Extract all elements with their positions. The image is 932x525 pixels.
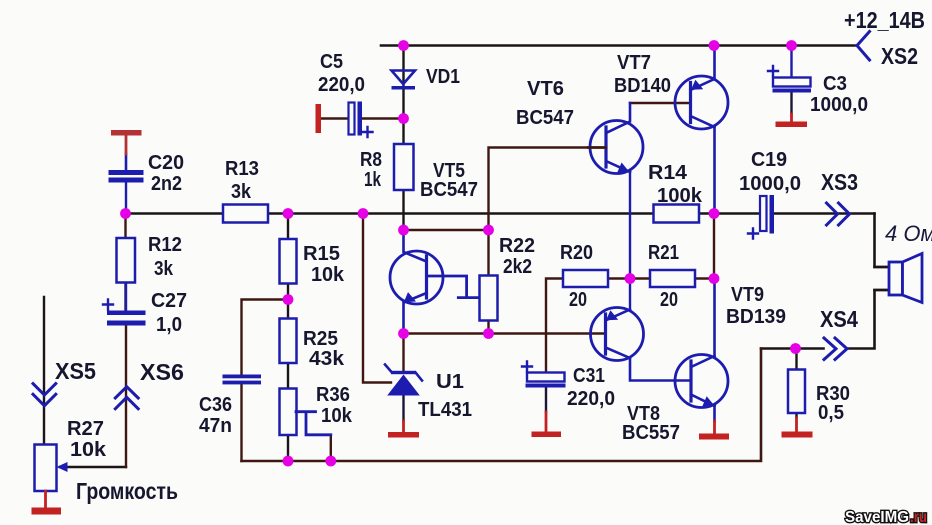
svg-text:220,0: 220,0 [318, 74, 365, 96]
svg-text:VD1: VD1 [426, 66, 460, 88]
svg-text:VT7: VT7 [617, 52, 651, 74]
wire R22 top to VT6 base [489, 148, 607, 231]
resistor R12 [117, 238, 136, 283]
wire VD1 lead [402, 46, 404, 119]
svg-text:10k: 10k [70, 439, 107, 461]
svg-text:43k: 43k [309, 348, 345, 370]
wire U1 cathode lead [402, 334, 404, 371]
wire R20 R21 node [608, 277, 650, 279]
wire output column upper [713, 214, 715, 279]
shunt regulator U1 TL431 [385, 365, 422, 396]
wire R15 top lead [287, 214, 289, 240]
wire speaker bottom to XS4 [761, 290, 889, 349]
node R22 bottom [483, 328, 494, 339]
capacitor C27 [103, 300, 146, 326]
svg-text:VT6: VT6 [527, 78, 564, 100]
node C20/R13 [120, 208, 131, 219]
node VT5 collector [398, 225, 409, 236]
svg-text:SaveIMG: SaveIMG [845, 509, 909, 525]
node VD1 top [398, 40, 409, 51]
svg-text:R12: R12 [148, 234, 182, 256]
transistor VT9 [675, 355, 728, 408]
svg-text:220,0: 220,0 [567, 388, 615, 410]
svg-text:2n2: 2n2 [151, 173, 182, 195]
diode VD1 [392, 71, 416, 90]
wire C27 to XS6 to wiper line [125, 324, 127, 467]
connector XS4 [824, 338, 847, 360]
capacitor C5 [349, 102, 373, 138]
svg-text:BD139: BD139 [726, 306, 786, 328]
capacitor C31 [522, 362, 566, 388]
capacitor C19 [748, 195, 774, 239]
node ref line [358, 208, 369, 219]
svg-text:C36: C36 [199, 394, 232, 416]
svg-text:R25: R25 [303, 328, 338, 350]
capacitor C36 [223, 375, 262, 385]
node R21 output [709, 273, 720, 284]
wire R30 top lead [795, 349, 797, 370]
transistor VT6 [588, 103, 643, 174]
svg-text:BD140: BD140 [614, 75, 671, 97]
red terminal left of C5 [316, 104, 322, 133]
node XS4 R30 [790, 343, 801, 354]
svg-text:BC547: BC547 [516, 107, 574, 129]
wire R8 leads [402, 119, 404, 231]
svg-text:10k: 10k [321, 405, 353, 427]
svg-text:47n: 47n [199, 415, 232, 437]
svg-text:C19: C19 [751, 149, 787, 171]
node dots [120, 40, 801, 466]
svg-text:XS6: XS6 [140, 359, 184, 385]
wire R21 right to output column [695, 277, 714, 279]
svg-text:R27: R27 [67, 418, 104, 440]
transistor VT8 [591, 308, 644, 361]
wire node A to TL431 ref [363, 214, 391, 383]
svg-text:R8: R8 [360, 149, 382, 171]
svg-text:1k: 1k [364, 169, 382, 191]
node C3 rail [786, 40, 797, 51]
transistor VT5 [390, 230, 443, 334]
transistor VT7 [675, 76, 728, 129]
svg-text:1000,0: 1000,0 [810, 94, 868, 116]
wire VT8 collector to VT9 base [630, 358, 691, 381]
connector XS2 [857, 32, 870, 61]
node R36 wiper bottom [325, 456, 336, 467]
resistor R30 [788, 370, 805, 414]
svg-text:20: 20 [569, 289, 587, 311]
wire XS3 to speaker top [875, 214, 890, 268]
wire R36 bottom lead [287, 435, 289, 461]
wire top +12V rail [381, 44, 857, 47]
wire R20 left to C31 [546, 279, 563, 373]
trimmer R36 [280, 389, 331, 436]
wire C5 to node [321, 117, 404, 119]
wire VT8 emitter lead [629, 279, 631, 311]
svg-text:Громкость: Громкость [76, 478, 178, 504]
svg-text:C5: C5 [320, 51, 343, 73]
wire VT9 emitter to ground [713, 406, 716, 421]
resistor R21 [650, 270, 695, 287]
resistor R14 [654, 205, 700, 223]
wire R15 bottom to R25 [287, 284, 289, 319]
svg-text:R22: R22 [499, 235, 535, 257]
svg-text:BC557: BC557 [622, 422, 680, 444]
wire R27 wiper to XS6 column [60, 466, 126, 468]
svg-text:1000,0: 1000,0 [739, 173, 801, 195]
wire VT6 collector to VT7 base [630, 102, 690, 104]
svg-text:XS4: XS4 [820, 306, 858, 332]
speaker [875, 254, 923, 303]
resistor R8 [394, 144, 414, 190]
wire VT7 emitter to rail [713, 46, 716, 80]
node output [709, 208, 720, 219]
ground under U1 [388, 421, 419, 438]
svg-text:U1: U1 [436, 371, 464, 393]
resistor R25 [280, 319, 297, 364]
wire divider to C36 [242, 300, 289, 375]
svg-text:3k: 3k [154, 258, 174, 280]
svg-text:R14: R14 [648, 162, 688, 184]
node R36 bottom [283, 456, 294, 467]
svg-text:XS5: XS5 [55, 358, 96, 384]
wire R30 bottom lead [795, 413, 797, 418]
ground under R27 [32, 491, 62, 515]
connector XS6 [115, 387, 138, 409]
svg-text:R20: R20 [560, 242, 593, 264]
svg-text:3k: 3k [231, 181, 252, 203]
node R15 R25 [283, 294, 294, 305]
capacitor C3 [768, 66, 811, 93]
wire feedback bottom line [242, 349, 762, 462]
wire R36 wiper to bottom line [330, 435, 332, 461]
resistor R15 [280, 239, 297, 284]
trimmer R22 [458, 276, 497, 321]
wire VT6 emitter to R20 R21 node [629, 172, 631, 279]
wire XS5 input column [43, 297, 45, 445]
svg-text:C27: C27 [151, 290, 187, 312]
resistor R20 [563, 270, 608, 287]
node VT5 emitter [398, 328, 409, 339]
svg-text:.ru: .ru [910, 509, 927, 525]
wire R25 bottom to R36 [287, 363, 289, 389]
svg-text:VT9: VT9 [731, 284, 764, 306]
svg-text:R15: R15 [303, 243, 340, 265]
wire main signal line y=213 [125, 212, 875, 215]
input terminal above C20 [111, 130, 142, 154]
resistor R13 [223, 205, 268, 223]
svg-text:R36: R36 [316, 384, 350, 406]
wire VT5 base to R22 wiper [427, 276, 467, 298]
svg-text:C20: C20 [148, 152, 184, 174]
svg-text:C3: C3 [823, 73, 847, 95]
ground under R30 [782, 418, 813, 438]
svg-text:TL431: TL431 [418, 399, 472, 421]
svg-text:XS2: XS2 [881, 43, 918, 69]
svg-text:20: 20 [660, 289, 678, 311]
wire C3 to ground [790, 92, 792, 115]
svg-text:R21: R21 [648, 242, 679, 264]
wire C36 bottom lead [240, 384, 242, 461]
ground under VT9 [699, 421, 729, 440]
wire R12 leads [124, 219, 126, 311]
wire VT7 collector lead [713, 127, 716, 214]
wire VT5 emitter to VT8 base [404, 332, 606, 334]
wire VT9 collector lead [713, 279, 716, 357]
connector XS3 [827, 203, 850, 225]
svg-text:1,0: 1,0 [156, 314, 182, 336]
potentiometer R27 [35, 445, 68, 492]
wire C31 bottom lead [545, 387, 547, 412]
svg-text:0,5: 0,5 [818, 402, 844, 424]
svg-text:100k: 100k [657, 185, 703, 207]
wire VT5 collector net [404, 229, 489, 231]
node R20 R21 [625, 273, 636, 284]
svg-text:XS3: XS3 [821, 169, 858, 195]
node R22 top [483, 225, 494, 236]
ground under C31 [532, 412, 562, 437]
wire C20 bottom lead [125, 183, 127, 214]
capacitor C20 [109, 154, 144, 183]
wire C27 top lead [125, 284, 127, 311]
node VT7 emitter rail [709, 40, 720, 51]
wire U1 anode to ground [402, 396, 404, 422]
connector XS5 [33, 384, 56, 406]
svg-text:4 Ома: 4 Ома [885, 221, 932, 246]
svg-text:R13: R13 [225, 158, 259, 180]
ground under C3 [776, 114, 808, 127]
svg-text:BC547: BC547 [420, 179, 478, 201]
svg-text:C31: C31 [573, 365, 605, 387]
wire C3 top lead [790, 46, 792, 78]
node R15 top [283, 208, 294, 219]
svg-text:+12_14B: +12_14B [844, 7, 925, 33]
svg-text:10k: 10k [311, 264, 345, 286]
node VD1 bottom [398, 113, 409, 124]
svg-text:2k2: 2k2 [503, 256, 532, 278]
wire R22 leads [487, 235, 489, 334]
